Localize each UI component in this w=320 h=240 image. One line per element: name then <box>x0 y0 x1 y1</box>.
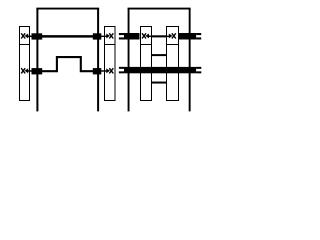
clamp A3 (anchor symbol in standard S1, lower) <box>21 68 28 73</box>
clamp A6 (anchor symbol in standard S4) <box>169 33 176 38</box>
lower ledger of frame 2: solid bar across posts P3 and P4 <box>124 67 196 73</box>
upper ledger of frame 2: right end plates (=) <box>196 34 201 38</box>
divider of standard S1 <box>20 44 30 46</box>
upper ledger of frame 2: left end plates (=) <box>119 34 124 38</box>
tie wire from coupler K4 to clamp A4 <box>101 70 107 72</box>
clamp A5 (anchor symbol in standard S3) <box>142 33 149 38</box>
tie wire from clamp A3 to coupler K3 <box>27 70 32 72</box>
standard S3 (inner left column, frame 2) <box>141 27 152 101</box>
post P3 (left rail of frame 2) <box>128 8 130 111</box>
standard S4 (inner right column, frame 2) <box>167 27 179 101</box>
standard S2 (right narrow column, frame 1) <box>105 27 116 101</box>
upper tie bar between standards S3 and S4 <box>152 54 167 56</box>
coupler K4 (lower right junction block on post P2) <box>93 68 102 74</box>
clamp A2 (anchor symbol in standard S2, upper) <box>106 33 113 38</box>
lower ledger of frame 2: right end plates (=) <box>196 68 201 73</box>
post P1 (left rail of frame 1) <box>36 8 38 111</box>
tie wire from clamp A1 to coupler K1 <box>27 35 32 37</box>
divider of standard S3 <box>141 44 152 46</box>
lower tie bar between standards S3 and S4 <box>152 82 167 84</box>
post P2 (right rail of frame 1) <box>97 8 99 111</box>
divider of standard S4 <box>167 44 179 46</box>
divider of standard S2 <box>105 44 116 46</box>
clamp A1 (anchor symbol in standard S1, upper) <box>21 33 28 38</box>
top beam of frame 2 <box>128 8 191 10</box>
coupler K1 (upper left junction block on post P1) <box>32 33 43 39</box>
tie wire from clamp A5 to middle span <box>148 35 152 37</box>
tie wire from middle span to clamp A6 <box>166 35 169 37</box>
tie wire from coupler K2 to clamp A2 <box>101 35 107 37</box>
upper ledger of frame 2: right solid bar through post P4 <box>178 33 196 40</box>
frame 2 portal (right bent) <box>128 8 191 111</box>
clamp A4 (anchor symbol in standard S2, lower) <box>106 68 113 73</box>
frame 1 portal (left bent) <box>36 8 99 111</box>
ledger L1 (upper beam of frame 1) <box>42 35 93 38</box>
standard S1 (left narrow column, frame 1) <box>20 27 30 101</box>
upper ledger of frame 2: left solid bar through post P3 <box>124 33 140 40</box>
post P4 (right rail of frame 2) <box>189 8 191 111</box>
lower ledger of frame 2: left end plates (=) <box>119 68 124 73</box>
coupler K2 (upper right junction block on post P2) <box>93 33 102 39</box>
coupler K3 (lower left junction block on post P1) <box>32 68 43 74</box>
top beam of frame 1 <box>36 8 99 10</box>
upper ledger of frame 2: middle span <box>152 35 167 37</box>
raised link beam (hat-shaped lower beam of frame 1) <box>42 57 93 71</box>
